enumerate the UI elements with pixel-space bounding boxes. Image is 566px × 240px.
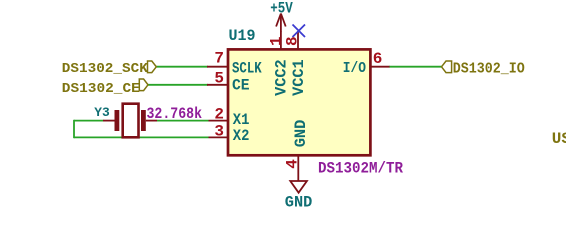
svg-text:CE: CE <box>232 76 250 94</box>
svg-text:5: 5 <box>214 70 224 88</box>
svg-text:US: US <box>552 130 566 148</box>
hierarchical label DS1302_SCK <box>62 61 157 77</box>
power symbol +5V <box>276 14 286 32</box>
crystal Y3 left plate <box>115 110 120 131</box>
wire DS1302_SCK to pin 7 <box>156 66 208 68</box>
wire crystal right plate to pin 2 <box>157 120 209 122</box>
svg-text:DS1302M/TR: DS1302M/TR <box>318 159 403 177</box>
svg-text:VCC2: VCC2 <box>273 59 291 96</box>
svg-text:8: 8 <box>284 36 302 46</box>
crystal pin left <box>103 120 115 122</box>
pin 8 <box>297 31 299 50</box>
pin 7 <box>207 66 228 68</box>
no-connect X on pin 8 <box>293 25 306 38</box>
svg-text:Y3: Y3 <box>94 105 110 120</box>
svg-text:3: 3 <box>214 123 224 141</box>
IC U19 body (DS1302M) <box>228 49 370 155</box>
svg-text:7: 7 <box>214 49 224 67</box>
svg-text:4: 4 <box>284 159 302 169</box>
svg-text:DS1302_IO: DS1302_IO <box>453 61 525 78</box>
pin 3 <box>209 136 229 138</box>
svg-text:GND: GND <box>285 194 313 210</box>
svg-text:DS1302_SCK: DS1302_SCK <box>62 61 149 77</box>
pin 6 <box>370 66 390 68</box>
svg-text:6: 6 <box>373 50 383 68</box>
svg-text:X1: X1 <box>233 111 250 129</box>
svg-text:U19: U19 <box>229 27 256 45</box>
svg-text:32.768k: 32.768k <box>147 105 203 123</box>
svg-text:GND: GND <box>292 120 310 148</box>
svg-text:DS1302_CE: DS1302_CE <box>62 81 140 97</box>
pin 4 <box>297 154 299 181</box>
svg-text:VCC1: VCC1 <box>290 59 308 96</box>
hierarchical label DS1302_IO <box>442 61 525 78</box>
pin 1 <box>280 31 282 50</box>
wire bottom run to pin 3 <box>74 136 209 138</box>
crystal pin right <box>146 120 157 122</box>
svg-text:2: 2 <box>214 105 224 123</box>
pin 5 <box>207 84 228 86</box>
svg-text:I/O: I/O <box>343 60 366 77</box>
svg-text:X2: X2 <box>233 127 250 145</box>
ground symbol <box>290 181 307 193</box>
wire DS1302_CE to pin 5 <box>148 84 208 86</box>
svg-text:SCLK: SCLK <box>232 60 262 78</box>
wire crystal left plate to corner <box>74 120 104 122</box>
crystal Y3 body rectangle <box>123 104 139 138</box>
wire vertical segment <box>73 120 75 138</box>
svg-text:+5V: +5V <box>270 0 293 17</box>
wire pin 6 to DS1302_IO <box>389 66 442 68</box>
pin 2 <box>209 120 229 122</box>
crystal Y3 right plate <box>141 110 146 131</box>
hierarchical label DS1302_CE <box>62 79 148 97</box>
